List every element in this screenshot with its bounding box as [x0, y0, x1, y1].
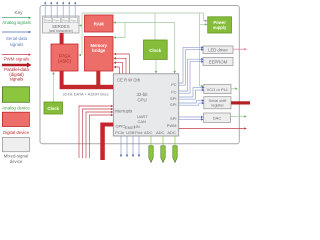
- svg-text:Fiber: Fiber: [71, 18, 77, 22]
- svg-text:PWM signals: PWM signals: [4, 57, 30, 62]
- wire interrupt 1: [79, 105, 113, 158]
- wire clock drop x82: [81, 13, 83, 55]
- wire clock into memory bridge: [114, 23, 126, 39]
- bus GPIO thick L: [100, 123, 113, 161]
- svg-text:Clock: Clock: [47, 106, 59, 111]
- wire interrupt 4: [90, 114, 114, 158]
- bus FPGA to data bus: [60, 71, 64, 85]
- svg-text:Key: Key: [15, 10, 24, 15]
- svg-text:ADC: ADC: [167, 130, 176, 135]
- svg-text:32-bit DATA + ADDR lines: 32-bit DATA + ADDR lines: [63, 92, 109, 97]
- key pwm arrow: [2, 53, 31, 55]
- svg-text:USB: USB: [126, 130, 135, 135]
- ADC analog input arrow 2: [161, 136, 165, 163]
- LED driver block: [203, 46, 233, 54]
- svg-text:Clock: Clock: [149, 48, 162, 53]
- wire LED driver out: [233, 48, 247, 51]
- svg-text:CPU: CPU: [137, 97, 146, 102]
- key parallel-data label: [4, 67, 29, 81]
- wire USB down arrow: [126, 136, 128, 157]
- wire cpu to memory bridge W: [114, 61, 123, 73]
- svg-text:ADC: ADC: [156, 130, 165, 135]
- wire SPI to VCO: [179, 88, 202, 100]
- wire VCO analog out: [231, 87, 238, 90]
- wire clock arrow into RAM: [113, 21, 116, 24]
- key analog device swatch: [2, 87, 29, 103]
- svg-text:EEPROM: EEPROM: [209, 60, 228, 65]
- wire SPI to DAC: [179, 117, 202, 119]
- wire interrupt 3: [86, 111, 113, 158]
- svg-text:signals: signals: [10, 76, 24, 81]
- ADC analog input arrow 3: [173, 136, 177, 163]
- svg-text:CE R W Oth: CE R W Oth: [117, 78, 141, 83]
- svg-text:GPIO: GPIO: [116, 123, 126, 128]
- wire clock into CPU at x158: [155, 60, 158, 74]
- svg-text:Serial shift: Serial shift: [209, 99, 228, 103]
- power supply block: [208, 17, 232, 33]
- svg-text:SPI: SPI: [170, 96, 176, 101]
- wire cpu to memory bridge CE: [114, 53, 130, 74]
- wire PWM out: [179, 127, 247, 130]
- wire PCIe down arrow: [120, 136, 122, 157]
- key analog signal arrow: [2, 17, 31, 19]
- clock block bottom: [44, 102, 63, 114]
- wire I2C to EEPROM: [179, 59, 202, 93]
- FPGA (ASIC) block: [51, 44, 78, 71]
- bus memory bridge to data bus: [96, 71, 100, 85]
- svg-text:I²C: I²C: [171, 90, 176, 95]
- svg-text:SPI: SPI: [170, 102, 176, 107]
- svg-text:I²C: I²C: [171, 82, 176, 87]
- bus 32-bit data + addr: [60, 85, 114, 89]
- wire clock riser from clock box: [154, 13, 156, 40]
- svg-text:VCO or PLL: VCO or PLL: [207, 87, 229, 92]
- bus SERDES to FPGA: [60, 33, 64, 44]
- wire cpu to memory bridge R: [114, 57, 127, 74]
- wire interrupt 2: [83, 108, 114, 158]
- VCO or PLL block: [204, 85, 231, 94]
- memory bridge block: [85, 37, 114, 72]
- svg-text:RAM: RAM: [94, 22, 104, 27]
- svg-text:CAN: CAN: [138, 119, 147, 124]
- system boundary frame: [40, 6, 239, 144]
- svg-text:register: register: [211, 104, 224, 108]
- wire clock branch y22.5: [114, 22, 175, 24]
- svg-text:LED driver: LED driver: [208, 48, 228, 53]
- svg-text:PWM: PWM: [167, 123, 177, 128]
- clock block top: [144, 40, 168, 60]
- serial shift register block: [204, 97, 231, 109]
- svg-text:PCIe: PCIe: [115, 130, 125, 135]
- bus serial shift register out thick: [231, 101, 250, 104]
- svg-text:32-bit: 32-bit: [137, 92, 149, 97]
- wire I2C to LED driver: [179, 47, 202, 85]
- svg-text:Serial-data: Serial-data: [6, 36, 28, 41]
- svg-text:Analog signals: Analog signals: [2, 20, 31, 25]
- svg-text:Interrupts: Interrupts: [115, 109, 133, 114]
- svg-text:Digital device: Digital device: [3, 130, 30, 135]
- SERDES block: [43, 16, 80, 33]
- key mixed-signal device label: [4, 154, 29, 165]
- wire SPI to serial shift register: [179, 101, 202, 106]
- wire clock2 into FPGA bottom: [52, 72, 55, 102]
- wire DAC analog out: [231, 115, 247, 118]
- wire down arrow 4: [138, 136, 140, 157]
- svg-text:[and transceiver]: [and transceiver]: [49, 29, 73, 33]
- DAC block: [204, 113, 231, 122]
- svg-text:DAC: DAC: [213, 116, 222, 121]
- EEPROM block: [203, 58, 233, 66]
- svg-text:Analog device: Analog device: [2, 106, 30, 111]
- key parallel-data thick arrow: [2, 62, 32, 67]
- svg-text:Mixed-signal: Mixed-signal: [4, 154, 29, 159]
- svg-text:Flex: Flex: [135, 130, 143, 135]
- serdes output arrows: [45, 4, 75, 18]
- svg-text:device: device: [10, 159, 23, 164]
- svg-text:bridge: bridge: [92, 48, 106, 53]
- svg-text:Fiber: Fiber: [45, 18, 51, 22]
- wire clock drop x199.5 to power supply lower and VCO: [200, 13, 208, 87]
- wire clock drop to power supply upper: [204, 13, 208, 22]
- svg-text:Fiber: Fiber: [54, 18, 60, 22]
- svg-text:SPI: SPI: [170, 116, 176, 121]
- svg-text:Fiber: Fiber: [62, 18, 68, 22]
- wire clock arrow into FPGA: [79, 54, 82, 57]
- svg-text:ADC: ADC: [144, 130, 153, 135]
- 32-bit CPU block: [113, 74, 178, 136]
- svg-text:(ASIC): (ASIC): [58, 59, 71, 64]
- key mixed-signal device swatch: [2, 137, 29, 151]
- key digital device swatch: [2, 112, 29, 126]
- key serial arrow: [2, 31, 31, 33]
- wire Flex down arrow: [132, 136, 134, 157]
- wire clock trunk y13: [82, 12, 204, 14]
- wire clock arrow into SERDES: [79, 24, 82, 27]
- wire clock into CPU at x175.6: [173, 23, 176, 74]
- svg-text:supply: supply: [213, 25, 227, 30]
- svg-text:signals: signals: [10, 42, 24, 47]
- RAM block: [85, 15, 114, 32]
- key serial-data signals label: [6, 36, 28, 47]
- ADC analog input arrow 1: [149, 136, 153, 163]
- svg-text:LIN: LIN: [134, 124, 140, 129]
- wire cpu to memory bridge Oth: [114, 66, 120, 74]
